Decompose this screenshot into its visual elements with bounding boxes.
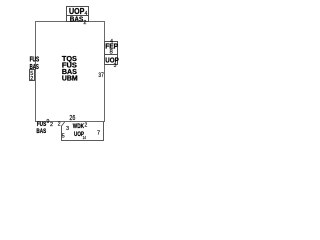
svg-text:14: 14 (83, 135, 87, 140)
svg-text:4: 4 (110, 39, 113, 45)
svg-text:37: 37 (98, 72, 104, 79)
svg-text:UBM: UBM (62, 76, 78, 83)
right porch box UOP (105, 55, 118, 65)
svg-text:UOP: UOP (69, 7, 85, 16)
svg-text:3: 3 (114, 63, 117, 69)
top porch box UOP (67, 7, 89, 16)
svg-text:BAS: BAS (36, 128, 46, 135)
svg-text:2: 2 (50, 122, 53, 128)
right porch box FEP (105, 42, 118, 55)
svg-text:2: 2 (58, 122, 61, 128)
left bump box (30, 70, 35, 81)
main building outline BAS (36, 22, 105, 122)
svg-text:7: 7 (97, 131, 100, 137)
svg-text:5: 5 (62, 134, 65, 140)
svg-text:WDK: WDK (73, 123, 84, 130)
svg-text:BAS: BAS (30, 64, 39, 71)
svg-text:2: 2 (83, 20, 86, 26)
top tier box BAS (67, 16, 89, 22)
svg-text:26: 26 (69, 115, 75, 122)
svg-text:3: 3 (66, 126, 69, 132)
svg-text:UOP: UOP (105, 57, 119, 64)
svg-text:9: 9 (46, 119, 49, 125)
svg-text:2: 2 (85, 123, 88, 129)
svg-text:2: 2 (30, 76, 33, 82)
svg-text:4: 4 (85, 11, 88, 17)
svg-text:FUS: FUS (30, 56, 40, 63)
bottom deck WDK/UOP polygon with clipped corner (62, 122, 104, 141)
svg-text:FUS: FUS (37, 121, 47, 128)
svg-text:BAS: BAS (70, 16, 84, 23)
